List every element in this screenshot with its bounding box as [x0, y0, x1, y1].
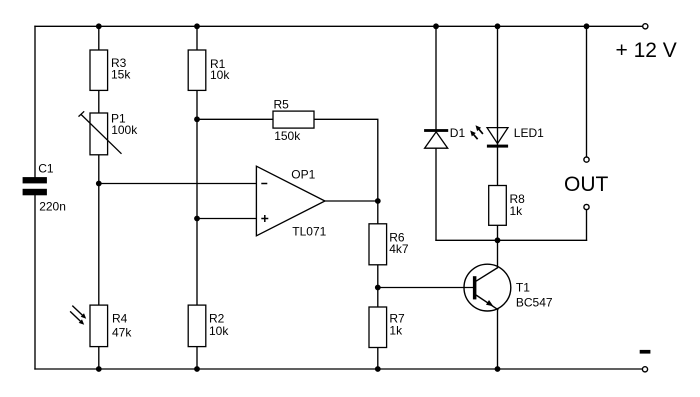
wire LED1 to R8: [497, 148, 499, 186]
wire OUT lower terminal drop: [586, 210, 588, 240]
wire R3 top: [98, 26, 100, 50]
op-amp inverting pin mark: [261, 183, 267, 185]
wire left vertical (C1 branch lower): [34, 195, 36, 369]
resistor R7: [369, 307, 387, 348]
node top rail / D1: [433, 23, 439, 29]
op-amp U1 OP1: [256, 166, 325, 236]
wire node B to R5 left: [197, 118, 273, 120]
op-amp non-inverting pin mark: [261, 215, 268, 222]
node divider / non-inverting input: [194, 216, 200, 222]
svg-text:10k: 10k: [209, 324, 229, 338]
svg-text:R5: R5: [274, 98, 290, 112]
wire R1 top: [196, 26, 198, 50]
svg-text:150k: 150k: [274, 129, 301, 143]
svg-text:1k: 1k: [389, 324, 403, 338]
resistor R2: [188, 305, 206, 347]
wire R4 bottom: [98, 347, 100, 369]
wire collector node horizontal: [436, 239, 587, 241]
transistor Q1 T1: [464, 264, 511, 311]
label minus: [640, 350, 651, 354]
node bottom rail / emitter: [495, 366, 501, 372]
svg-text:OUT: OUT: [564, 173, 609, 196]
wire R7 bottom: [377, 348, 379, 370]
node top rail / R3: [96, 23, 102, 29]
wire LED1 top: [497, 26, 499, 147]
terminal +12V: [643, 24, 648, 29]
terminal OUT upper: [584, 157, 589, 162]
wire P1 to R4 through node A: [98, 155, 100, 305]
capacitor C1: [23, 177, 47, 195]
wire R3 to P1: [98, 90, 100, 113]
wire OUT upper terminal drop: [586, 26, 588, 157]
node P1 wiper / inverting input: [96, 181, 102, 187]
wire emitter to bottom rail: [497, 310, 499, 370]
wire inverting input: [99, 183, 257, 185]
node collector / R8: [495, 237, 501, 243]
svg-text:10k: 10k: [210, 68, 230, 82]
svg-text:TL071: TL071: [292, 224, 326, 238]
wire output node to R6: [377, 201, 379, 224]
wire base of T1: [378, 287, 473, 289]
wire bottom rail: [35, 368, 642, 370]
svg-text:+ 12 V: + 12 V: [616, 39, 677, 62]
svg-text:C1: C1: [38, 161, 54, 175]
terminal OUT lower: [584, 204, 589, 209]
svg-text:220n: 220n: [39, 199, 66, 213]
wire R8 to collector: [497, 225, 499, 267]
node op-amp output: [375, 198, 381, 204]
wire D1 top: [435, 26, 437, 129]
svg-text:D1: D1: [450, 126, 466, 140]
LED LED1: [487, 128, 508, 148]
potentiometer P1: [79, 111, 122, 155]
svg-text:1k: 1k: [510, 204, 524, 218]
svg-text:OP1: OP1: [291, 167, 315, 181]
resistor R1: [188, 50, 206, 90]
wire top supply rail: [35, 25, 642, 27]
resistor R6: [369, 224, 387, 265]
svg-text:T1: T1: [516, 280, 530, 294]
node bottom rail / R7: [375, 366, 381, 372]
wire R6 to R7: [377, 265, 379, 307]
light arrows into R4: [70, 306, 86, 325]
LED emission arrows: [470, 125, 483, 139]
node top rail / R1: [194, 23, 200, 29]
node bottom rail / R4: [96, 366, 102, 372]
node R1-R5 divider: [194, 116, 200, 122]
diode D1: [424, 129, 448, 148]
node top rail / OUT: [584, 23, 590, 29]
node R6-R7 base: [375, 285, 381, 291]
wire R5 right to feedback corner: [314, 119, 378, 201]
resistor R3: [90, 50, 108, 90]
wire non-inverting input: [197, 218, 256, 220]
terminal minus: [642, 367, 647, 372]
wire op-amp output: [325, 200, 378, 202]
wire R1 to R2 through nodes: [196, 90, 198, 305]
node top rail / LED1: [495, 23, 501, 29]
wire R2 bottom: [196, 347, 198, 369]
svg-text:BC547: BC547: [516, 295, 553, 309]
svg-text:100k: 100k: [111, 123, 138, 137]
svg-text:4k7: 4k7: [389, 242, 409, 256]
wire left vertical (C1 branch upper): [34, 26, 36, 177]
svg-text:LED1: LED1: [514, 126, 544, 140]
wire D1 bottom: [435, 148, 437, 240]
svg-text:15k: 15k: [111, 67, 131, 81]
resistor R8: [489, 186, 507, 226]
node bottom rail / R2: [194, 366, 200, 372]
svg-text:47k: 47k: [112, 325, 132, 339]
resistor R5: [273, 111, 314, 128]
photoresistor R4: [90, 305, 108, 347]
svg-text:R4: R4: [112, 311, 128, 325]
